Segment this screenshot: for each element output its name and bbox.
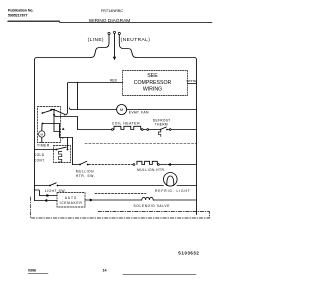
wire: icemaker right top (dashed): [95, 193, 146, 195]
svg-text:Publication No.: Publication No.: [8, 9, 34, 13]
svg-text:SOLENOID VALVE: SOLENOID VALVE: [134, 204, 171, 208]
svg-text:EVAP. FAN: EVAP. FAN: [129, 111, 149, 115]
coil heater resistor: [112, 129, 114, 131]
cabinet dash-dot line upper: [98, 211, 210, 213]
wire: C to timer motor: [41, 124, 43, 130]
label COLD CONT.: [34, 153, 46, 163]
svg-text:WHITE: WHITE: [186, 79, 196, 83]
plug prong circle left (LINE): [108, 32, 110, 34]
icemaker connector arrow right: [85, 199, 90, 201]
svg-text:COLD: COLD: [34, 153, 45, 157]
wire: timer to cold control: [67, 138, 69, 149]
wire: evap fan feed: [77, 83, 79, 110]
evap fan motor M: [117, 105, 127, 115]
connector arrow on mullion line: [159, 164, 167, 166]
left cord wire: prong to left line bus: [35, 35, 110, 190]
wire: line bus to light switch: [35, 185, 50, 187]
wire: timer motor bottom stub: [41, 137, 43, 142]
cold control contacts: [55, 149, 57, 151]
mullion heater resistor: [133, 164, 135, 166]
mullion heater switch: [73, 164, 80, 166]
timer terminal numbers: [59, 132, 64, 139]
wire WHITE: compressor box to right bus: [188, 83, 197, 85]
timer pivot link: [53, 110, 55, 114]
dashed compartment line: [85, 143, 196, 145]
right cord wire: prong to right neutral bus: [119, 35, 196, 215]
svg-text:COMPRESSOR: COMPRESSOR: [134, 80, 172, 86]
svg-text:0396: 0396: [28, 268, 36, 272]
svg-text:ICEMAKER: ICEMAKER: [60, 201, 83, 205]
wire: bus to icemaker (bottom): [35, 200, 44, 202]
svg-text:TIMER: TIMER: [37, 143, 50, 147]
junction dot on RED wire: [77, 82, 79, 84]
wire: evap fan line left hook: [69, 108, 71, 110]
ground prong wire with arrow: [114, 34, 116, 57]
svg-text:COIL HEATER: COIL HEATER: [112, 122, 140, 126]
defrost thermostat capillary: [158, 130, 160, 137]
svg-text:(NEUTRAL): (NEUTRAL): [121, 37, 151, 43]
plug prong circle middle (ground): [113, 31, 115, 33]
defrost thermostat: [160, 129, 162, 131]
svg-text:M: M: [120, 107, 123, 112]
svg-text:5995217877: 5995217877: [8, 14, 28, 18]
timer terminal C: [42, 123, 44, 125]
wire RED: feed to compressor box and timer contact: [65, 83, 123, 116]
svg-text:MULLION HTR.: MULLION HTR.: [137, 168, 166, 172]
light switch: [49, 185, 51, 187]
wire: timer to mullion switch riser: [72, 138, 74, 165]
svg-text:FRT14NRBC: FRT14NRBC: [101, 9, 124, 13]
wire: light switch to lamp: [58, 185, 164, 187]
cold control bellows: [59, 152, 62, 162]
timer terminal A: [42, 112, 44, 114]
wire: line bus to cold control: [35, 149, 56, 151]
icemaker box (dashed): [57, 193, 85, 208]
footer rule right: [123, 274, 196, 276]
svg-text:14: 14: [103, 268, 107, 272]
svg-text:MULLION: MULLION: [76, 169, 94, 173]
svg-text:WIRING: WIRING: [143, 86, 162, 92]
timer internal link D to motor branch: [54, 115, 60, 132]
wire: timer to defrost heater: [54, 116, 111, 130]
timer terminal B with arrow: [53, 109, 55, 111]
svg-text:WIRING DIAGRAM: WIRING DIAGRAM: [89, 18, 131, 24]
label DEFROST THERM: [153, 119, 171, 127]
svg-text:HTR. SW.: HTR. SW.: [76, 174, 95, 178]
svg-text:S103632: S103632: [178, 250, 199, 255]
compressor note box: [123, 71, 188, 96]
refrigerator lamp: [164, 173, 178, 187]
wire: line bus to icemaker (top): [35, 190, 47, 196]
publication number text: [8, 9, 34, 18]
svg-text:(LINE): (LINE): [88, 37, 104, 43]
icemaker connector arrow left bottom: [44, 199, 48, 202]
plug prong circle right (NEUTRAL): [118, 32, 120, 34]
wire: evap fan line: [71, 109, 196, 111]
wire: heater to defrost thermostat: [143, 129, 147, 131]
timer contact arm: [54, 110, 65, 115]
left bus lower extension: [34, 190, 36, 201]
publication underline (bold): [8, 20, 60, 22]
svg-text:REFRIG. LIGHT: REFRIG. LIGHT: [155, 189, 191, 193]
footer rule left: [28, 273, 48, 275]
timer motor M: [39, 131, 45, 137]
wire: terminal C to internal riser: [43, 124, 73, 138]
cold control box (dashed): [54, 146, 71, 163]
wire: icemaker to solenoid: [93, 199, 142, 201]
header rule: [60, 22, 213, 24]
timer terminal D: [53, 114, 55, 116]
timer box (dashed): [38, 107, 61, 143]
wire: solenoid to right bus: [153, 199, 196, 201]
svg-text:RED: RED: [110, 78, 118, 82]
svg-text:SEE: SEE: [147, 73, 158, 79]
wire: mullion switch to heater (dashed run): [89, 164, 134, 166]
footer: [28, 250, 199, 272]
cabinet dash-dot outline lower: [31, 197, 210, 218]
svg-text:THERM: THERM: [155, 123, 168, 127]
label MULLION HTR. SW.: [76, 169, 95, 177]
icemaker connector arrow left top: [47, 194, 51, 197]
timer terminal triangle marker: [62, 128, 65, 130]
svg-text:AUTO: AUTO: [65, 196, 77, 200]
svg-text:CONT.: CONT.: [34, 159, 46, 163]
solenoid valve coil: [142, 197, 153, 200]
